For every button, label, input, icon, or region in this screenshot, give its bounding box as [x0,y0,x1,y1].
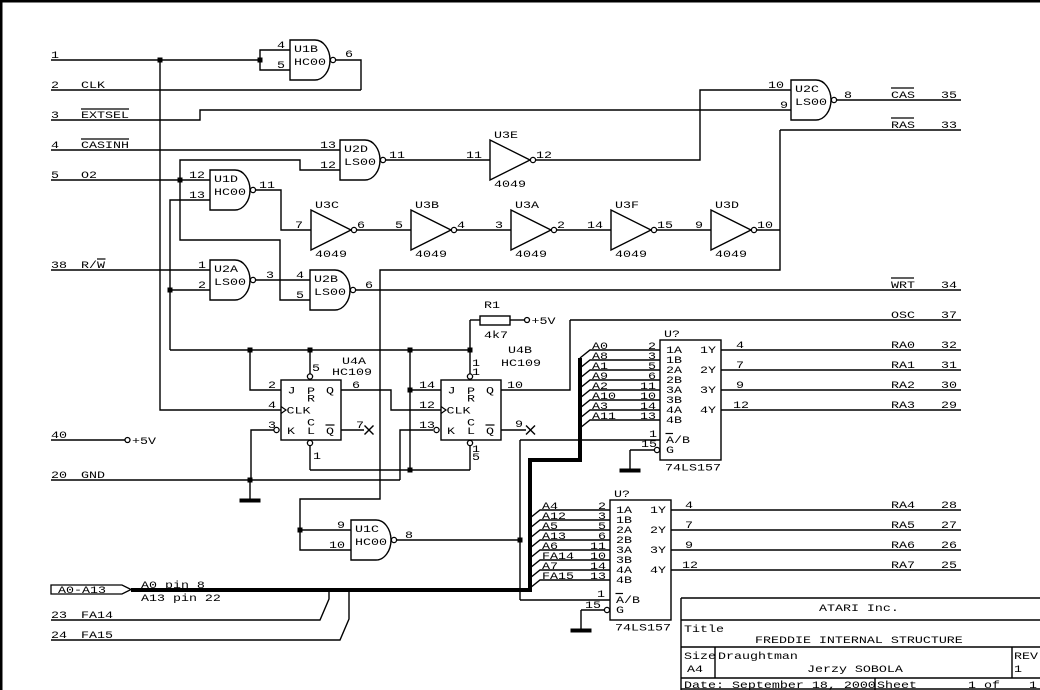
svg-text:14: 14 [587,219,603,231]
svg-text:5: 5 [296,289,304,301]
wire U3F to U3D [656,229,711,231]
inverter U3F 4049 [587,199,673,260]
title block title [684,623,963,646]
wire U4B CL stub [469,446,471,470]
svg-text:4049: 4049 [315,248,347,260]
svg-text:U1B: U1B [294,43,318,55]
svg-text:9: 9 [337,519,345,531]
svg-text:K: K [287,425,296,437]
svg-text:U3F: U3F [615,199,639,211]
junction O2 branch [178,178,183,183]
wire U1C pin9 stub [300,529,351,531]
label A4 pin 2 [542,500,606,512]
svg-text:A13 pin 22: A13 pin 22 [141,592,221,604]
wire RA1 output [721,369,961,371]
wire bus tap A6 to mux U? lower [530,550,610,558]
svg-text:34: 34 [941,279,957,291]
wire U4A CL stub [309,446,311,470]
junction rail/R1 [468,348,473,353]
svg-text:Q: Q [326,385,334,397]
svg-text:J: J [288,385,296,397]
svg-text:10: 10 [768,79,784,91]
wire OSC output [570,319,961,321]
flip-flop U4B HC109 [434,374,501,446]
NAND gate U1D HC00 [210,170,256,210]
wire bus tap A3 to mux U? upper [580,410,660,418]
wire mux2 G stub [581,609,604,611]
label RA0 32 output [736,339,957,351]
+5V terminal at R1 [525,315,557,327]
svg-text:U3B: U3B [415,199,439,211]
svg-text:4049: 4049 [515,248,547,260]
wire U4B Qbar stub [501,429,526,431]
svg-text:WRT: WRT [891,279,915,291]
svg-text:12: 12 [320,159,336,171]
svg-text:74LS157: 74LS157 [665,462,721,474]
svg-text:G: G [616,604,624,616]
svg-text:9: 9 [515,418,523,430]
wire pin5 O2 to U1D [51,179,210,181]
junction U1C pin9 [298,528,303,533]
label RA5 27 output [685,519,957,531]
svg-text:2Y: 2Y [650,524,666,536]
svg-text:FREDDIE INTERNAL STRUCTURE: FREDDIE INTERNAL STRUCTURE [755,634,963,646]
svg-text:2: 2 [198,279,206,291]
svg-text:Q: Q [326,425,334,437]
label U4A HC109 [332,355,372,378]
overline CAS [891,87,914,89]
inverter U3A 4049 [495,199,565,260]
wire U3E output up to U2C pin10 [536,90,791,160]
svg-text:L: L [467,425,475,437]
svg-text:5: 5 [395,219,403,231]
wire pin23 FA14 to bus [51,588,329,620]
svg-text:12: 12 [733,399,749,411]
svg-text:HC00: HC00 [214,186,246,198]
wire RA2 output [721,389,961,391]
wire U1B input jog [260,50,290,70]
wire pin3 EXTSEL [51,110,791,120]
wire O2 branch up to U2D pin12 [180,160,340,180]
no-connect X U4B pin9 [526,426,535,435]
svg-text:U3C: U3C [315,199,339,211]
svg-text:CLK: CLK [287,405,312,417]
svg-text:HC109: HC109 [332,366,372,378]
wire select to mux1 A/B [520,439,660,441]
wire RA0 output [721,349,961,351]
label A0 pin 8 / A13 pin 22 [141,579,221,604]
node A0-A13 bus entry pennant [51,584,131,596]
wire U4A Qbar stub [341,429,364,431]
svg-text:U1C: U1C [355,523,379,535]
svg-text:U4A: U4A [342,355,367,367]
wire U2A output to U2B pin4 [256,279,310,281]
junction U4B pin14 [408,388,413,393]
ground symbol main [240,480,261,501]
NAND gate U1C HC00 [351,520,397,560]
wire U2D output to U3E [386,159,490,161]
title block size/draughtman/rev [684,650,1039,675]
wire bus tap A2 to mux U? upper [580,390,660,398]
wire select to mux2 A/B [520,599,610,601]
svg-text:Draughtman: Draughtman [718,650,798,662]
svg-text:2: 2 [268,379,276,391]
svg-text:Title: Title [684,623,724,635]
svg-text:LS00: LS00 [314,286,346,298]
svg-text:13: 13 [419,419,435,431]
svg-text:A4: A4 [687,663,703,675]
svg-text:U2C: U2C [795,83,819,95]
wire RA7 output [671,569,961,571]
svg-text:35: 35 [941,89,957,101]
NAND gate U1B HC00 [290,40,336,80]
pin label 11 U4B PR vertical [472,357,480,378]
wire RAS vertical to U3D output [300,130,780,550]
wire select vertical [519,440,521,600]
svg-text:R1: R1 [484,299,500,311]
wire U4A PR stub [309,350,311,374]
label RA6 26 output [685,539,957,551]
label A11 pin 13 [592,410,656,422]
pin 4 CASINH label [51,139,129,151]
svg-text:37: 37 [941,309,957,321]
svg-text:RAS: RAS [891,119,915,131]
wire R1 left [470,319,480,321]
wire pin24 FA15 to bus [51,588,349,640]
no-connect X U4A pin7 [365,426,374,435]
label OSC 37 output [891,309,957,321]
wire U4B K to ground [400,430,433,480]
svg-text:K: K [447,425,456,437]
title block frame [681,598,1040,690]
svg-text:4k7: 4k7 [484,329,508,341]
wire U1B output to CLK line [336,60,361,90]
svg-text:R: R [307,393,315,405]
svg-text:5: 5 [312,362,320,374]
wire CL return [310,469,470,471]
svg-text:LS00: LS00 [795,96,827,108]
wire bus tap A1 to mux U? upper [580,370,660,378]
pin 1 label [51,49,59,61]
label A6 pin 11 [542,540,606,552]
svg-text:4: 4 [685,499,693,511]
wire RA4 output [671,509,961,511]
wire U4A pin2 J [250,350,281,390]
wire bus tap A4 to mux U? lower [530,510,610,518]
svg-text:28: 28 [941,499,957,511]
label RA1 31 output [736,359,957,371]
inverter U3E 4049 [466,129,552,190]
svg-text:33: 33 [941,119,957,131]
svg-text:Date: September 18, 2000: Date: September 18, 2000 [684,679,876,690]
svg-text:OSC: OSC [891,309,915,321]
svg-text:RA5: RA5 [891,519,915,531]
wire bus tap A5 to mux U? lower [530,530,610,538]
svg-text:1 of: 1 of [968,679,1000,690]
svg-text:29: 29 [941,399,957,411]
svg-text:U2A: U2A [214,263,239,275]
svg-text:4B: 4B [666,414,682,426]
junction rail/U4A pin2 [248,348,253,353]
pin label 15 U4B CL vertical [472,443,480,463]
svg-text:4: 4 [268,399,276,411]
svg-text:1Y: 1Y [650,504,666,516]
wire U4A K to ground [251,430,274,480]
svg-text:2Y: 2Y [700,364,716,376]
junction rail/U4A PR [308,348,313,353]
label RA3 29 output [733,399,957,411]
wire RA3 output [721,409,961,411]
svg-text:U2B: U2B [314,273,338,285]
svg-text:4049: 4049 [415,248,447,260]
wire R1 right [510,319,525,321]
wire bus tap A0 to mux U? upper [580,350,660,358]
svg-text:A0-A13: A0-A13 [58,584,106,596]
wire pin4 CASINH to U2D [51,149,340,151]
wire U3D output to RAS vertical [756,229,780,231]
svg-text:CLK: CLK [447,405,472,417]
label A0 pin 2 [592,340,656,352]
pin 5 O2 label [51,169,97,181]
label RA7 25 output [682,559,957,571]
svg-text:L: L [307,425,315,437]
wire tie vertical J14-CL [409,350,411,470]
pin 2 CLK label [51,79,106,91]
wire U2A pin2 stub [170,289,210,291]
wire pin40 stub [51,439,125,441]
label RA4 28 output [685,499,957,511]
svg-text:12: 12 [419,399,435,411]
label A7 pin 14 [542,560,606,572]
svg-text:25: 25 [941,559,957,571]
svg-text:9: 9 [736,379,744,391]
wire O2 branch down to U2B pin5 [180,180,310,300]
bus A0-A13 thick [131,358,580,590]
junction U2A pin2 [168,288,173,293]
svg-text:4049: 4049 [494,178,526,190]
svg-text:1Y: 1Y [700,344,716,356]
pin 20 GND label [51,469,105,481]
svg-text:74LS157: 74LS157 [615,622,671,634]
svg-text:4049: 4049 [615,248,647,260]
svg-text:5: 5 [277,59,285,71]
svg-text:U?: U? [614,488,630,500]
inverter U3D 4049 [695,199,773,260]
wire pin1 net [51,59,260,61]
svg-text:1: 1 [198,259,206,271]
svg-text:U3A: U3A [515,199,540,211]
wire U3A to U3F [556,229,611,231]
multiplexer U? 74LS157 lower [604,488,671,633]
overline RAS [891,117,914,119]
svg-text:31: 31 [941,359,957,371]
svg-text:G: G [666,444,674,456]
svg-text:9: 9 [695,219,703,231]
label U4B HC109 [501,344,541,369]
svg-text:3: 3 [495,219,503,231]
junction pin1/vertical [158,58,163,63]
wire RA6 output [671,549,961,551]
wire U1D pin13 from PR rail [170,200,210,350]
wire RAS output [780,129,961,131]
svg-text:REV: REV [1014,650,1039,662]
svg-text:RA1: RA1 [891,359,915,371]
svg-text:Q: Q [486,385,494,397]
wire CAS output [836,99,961,101]
label A13 pin 6 [542,530,606,542]
svg-text:4B: 4B [616,574,632,586]
svg-text:7: 7 [736,359,744,371]
svg-text:1: 1 [1029,679,1037,690]
wire bus tap A13 to mux U? lower [530,540,610,548]
svg-text:LS00: LS00 [214,276,246,288]
overline EXTSEL [81,108,129,110]
svg-text:1: 1 [597,588,605,600]
label FA15 pin 13 [542,570,606,582]
svg-text:6: 6 [345,48,353,60]
label A2 pin 11 [592,380,656,392]
+5V terminal pin40 [125,435,157,447]
NAND gate U2B LS00 [310,270,356,310]
wire bus tap A10 to mux U? upper [580,400,660,408]
wire bus tap A12 to mux U? lower [530,520,610,528]
svg-text:1: 1 [1014,663,1022,675]
label A12 pin 3 [542,510,606,522]
svg-text:4Y: 4Y [700,404,716,416]
svg-text:FA15: FA15 [542,570,574,582]
svg-text:Q: Q [486,425,494,437]
svg-text:11: 11 [466,149,482,161]
svg-text:RA4: RA4 [891,499,915,511]
svg-text:4: 4 [296,269,304,281]
wire pin1 vertical to U4A CLK [160,60,281,410]
svg-text:RA7: RA7 [891,559,915,571]
overline CASINH [81,138,129,140]
inverter U3B 4049 [395,199,465,260]
svg-text:12: 12 [682,559,698,571]
wire pin2 CLK [51,89,361,91]
svg-text:4: 4 [736,339,744,351]
label WRT 34 output [891,279,957,291]
svg-text:9: 9 [780,99,788,111]
inverter U3C 4049 [295,199,365,260]
svg-text:7: 7 [685,519,693,531]
svg-text:RA2: RA2 [891,379,915,391]
ground symbol mux2 [571,610,592,631]
svg-text:13: 13 [590,570,606,582]
flip-flop U4A HC109 [274,374,341,446]
wire WRT output [356,289,961,291]
label RA2 30 output [736,379,957,391]
svg-text:1: 1 [313,450,321,462]
svg-text:13: 13 [320,139,336,151]
wire pin20 GND [51,479,400,481]
wire U4B pin14 J [410,389,441,391]
svg-text:Sheet: Sheet [877,679,917,690]
label A5 pin 5 [542,520,606,532]
NAND gate U2A LS00 [210,260,256,300]
svg-text:U1D: U1D [214,173,238,185]
svg-text:RA0: RA0 [891,339,915,351]
svg-text:4Y: 4Y [650,564,666,576]
pin 23 FA14 label [51,609,113,621]
svg-text:3Y: 3Y [700,384,716,396]
svg-text:30: 30 [941,379,957,391]
junction U1B input jog [258,58,263,63]
junction CL return [408,468,413,473]
pin 40 label [51,429,67,441]
pin 38 R/W label [51,259,106,271]
svg-text:32: 32 [941,339,957,351]
wire bus tap FA15 to mux U? lower [530,580,610,588]
svg-text:5: 5 [472,451,480,463]
svg-text:9: 9 [685,539,693,551]
label FA14 pin 10 [542,550,606,562]
svg-text:3Y: 3Y [650,544,666,556]
svg-text:4049: 4049 [715,248,747,260]
overline W of R/W [97,258,106,260]
svg-text:HC00: HC00 [355,536,387,548]
pin 3 EXTSEL label [51,109,129,121]
svg-text:+5V: +5V [132,435,157,447]
label A10 pin 10 [592,390,656,402]
svg-text:U4B: U4B [508,344,532,356]
wire bus tap A8 to mux U? upper [580,360,660,368]
wire RA5 output [671,529,961,531]
label RAS 33 output [891,119,957,131]
svg-text:U2D: U2D [344,143,368,155]
svg-text:Size: Size [684,650,716,662]
resistor R1 4k7 [480,299,510,341]
svg-text:LS00: LS00 [344,156,376,168]
overline WRT [891,277,914,279]
svg-text:U3E: U3E [494,129,518,141]
wire U4A Q to U4B CLK [341,390,441,410]
wire pin38 R/W to U2A [51,269,210,271]
wire U3B to U3A [456,229,511,231]
wire bus tap A9 to mux U? upper [580,380,660,388]
svg-text:HC109: HC109 [501,357,541,369]
NAND gate U2C LS00 [791,80,837,120]
label A8 pin 3 [592,350,656,362]
svg-text:U3D: U3D [715,199,739,211]
svg-text:13: 13 [640,410,656,422]
svg-text:CAS: CAS [891,89,915,101]
svg-text:R: R [467,393,475,405]
label CAS 35 output [891,89,957,101]
svg-text:RA6: RA6 [891,539,915,551]
label A3 pin 14 [592,400,656,412]
svg-text:27: 27 [941,519,957,531]
wire U3C to U3B [356,229,411,231]
svg-text:12: 12 [189,169,205,181]
svg-text:14: 14 [419,379,435,391]
svg-text:7: 7 [295,219,303,231]
svg-text:HC00: HC00 [294,56,326,68]
junction select vertical [518,538,523,543]
pin 24 FA15 label [51,629,113,641]
wire U1C output to select vertical [397,539,520,541]
svg-text:+5V: +5V [532,315,557,327]
NAND gate U2D LS00 [340,140,386,180]
wire U4B Q to OSC [501,320,570,390]
wire U1D output to U3C [256,190,311,230]
wire bus tap A7 to mux U? lower [530,570,610,578]
svg-text:J: J [448,385,456,397]
svg-text:ATARI Inc.: ATARI Inc. [819,602,899,614]
svg-text:Jerzy SOBOLA: Jerzy SOBOLA [807,663,904,675]
wire PR rail [170,349,470,351]
